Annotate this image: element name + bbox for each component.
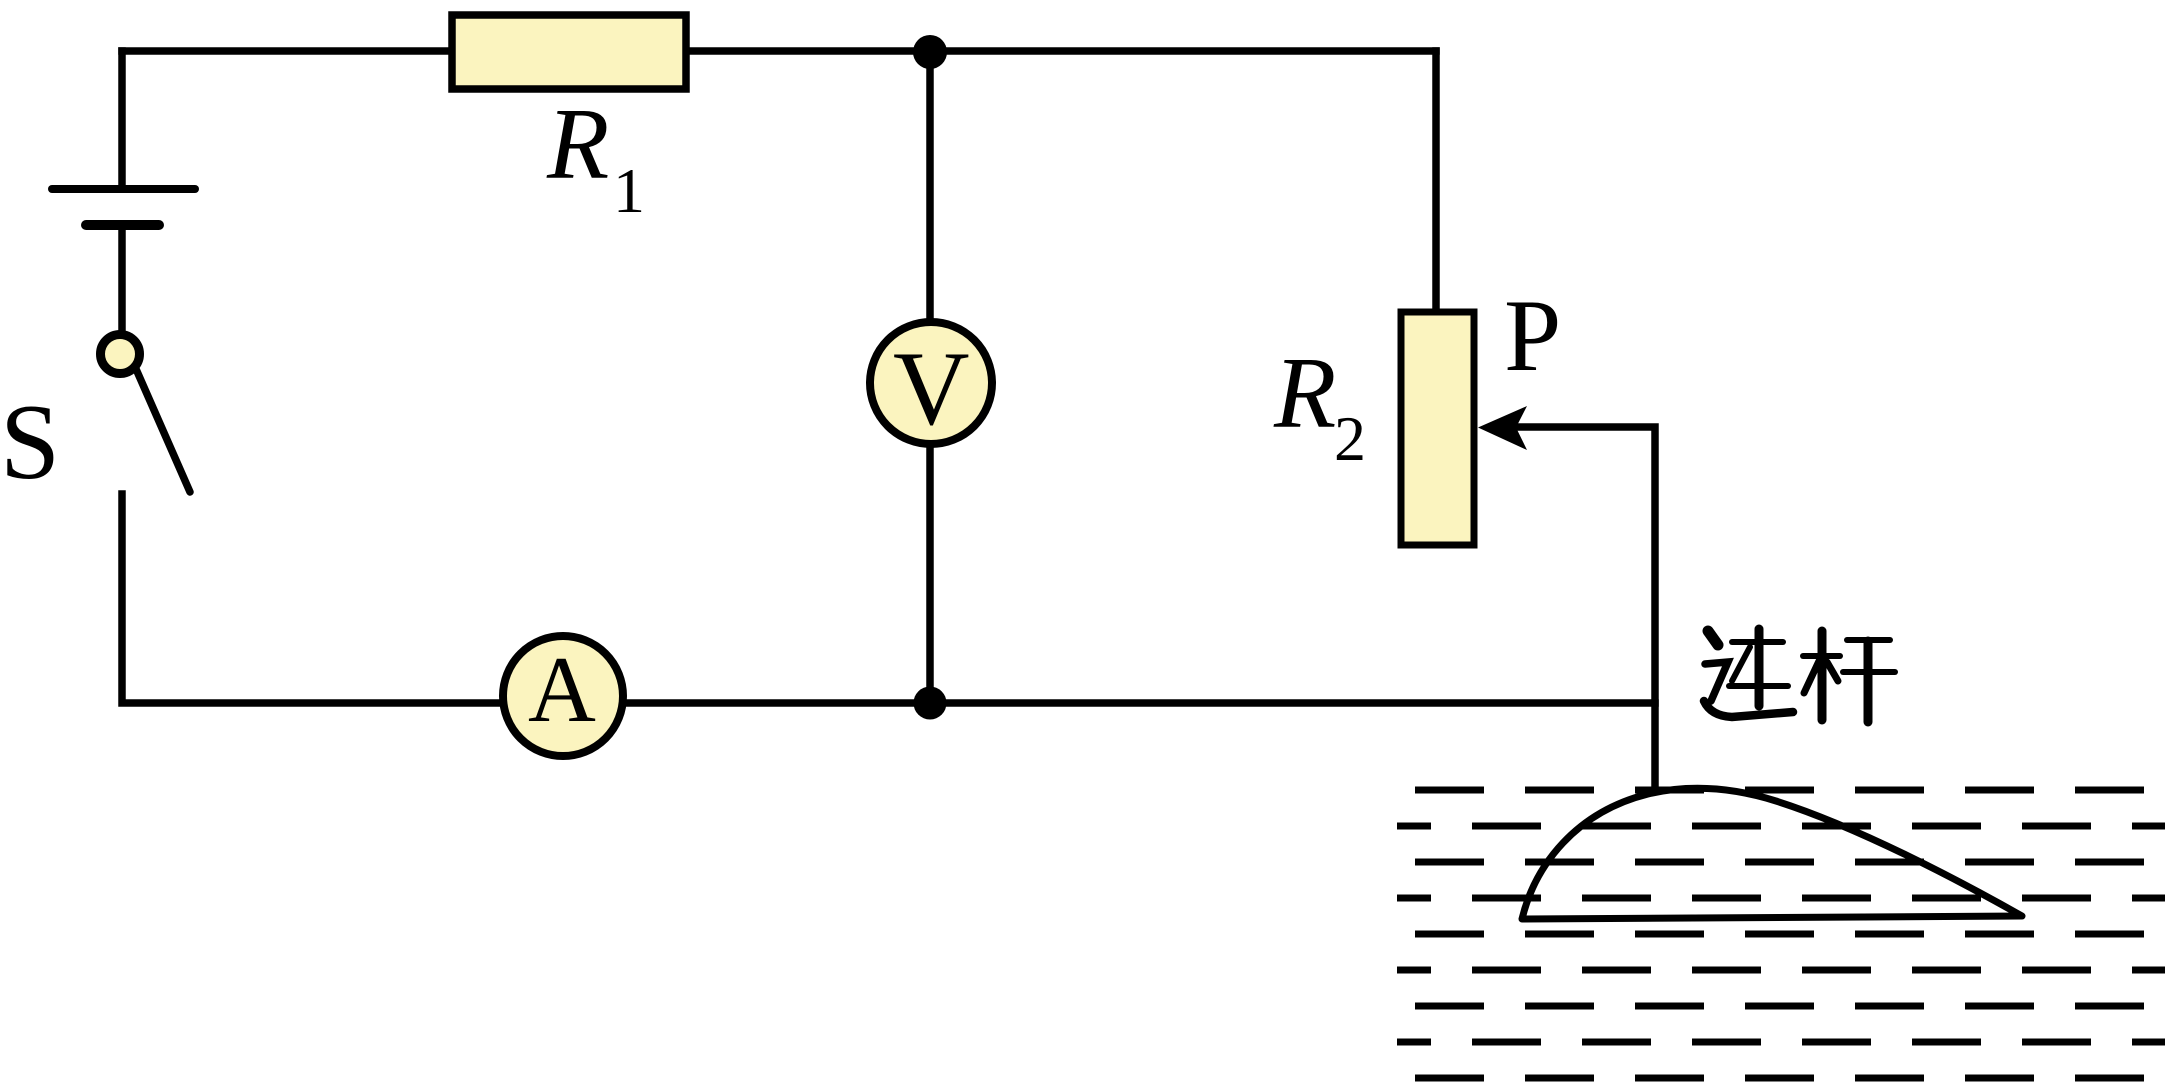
svg-text:V: V (893, 330, 970, 447)
svg-text:A: A (528, 638, 596, 742)
svg-text:R: R (546, 88, 609, 201)
svg-text:2: 2 (1334, 403, 1366, 474)
svg-text:1: 1 (613, 155, 645, 226)
svg-text:S: S (0, 383, 60, 502)
svg-text:R: R (1273, 337, 1336, 450)
svg-text:P: P (1504, 279, 1561, 393)
